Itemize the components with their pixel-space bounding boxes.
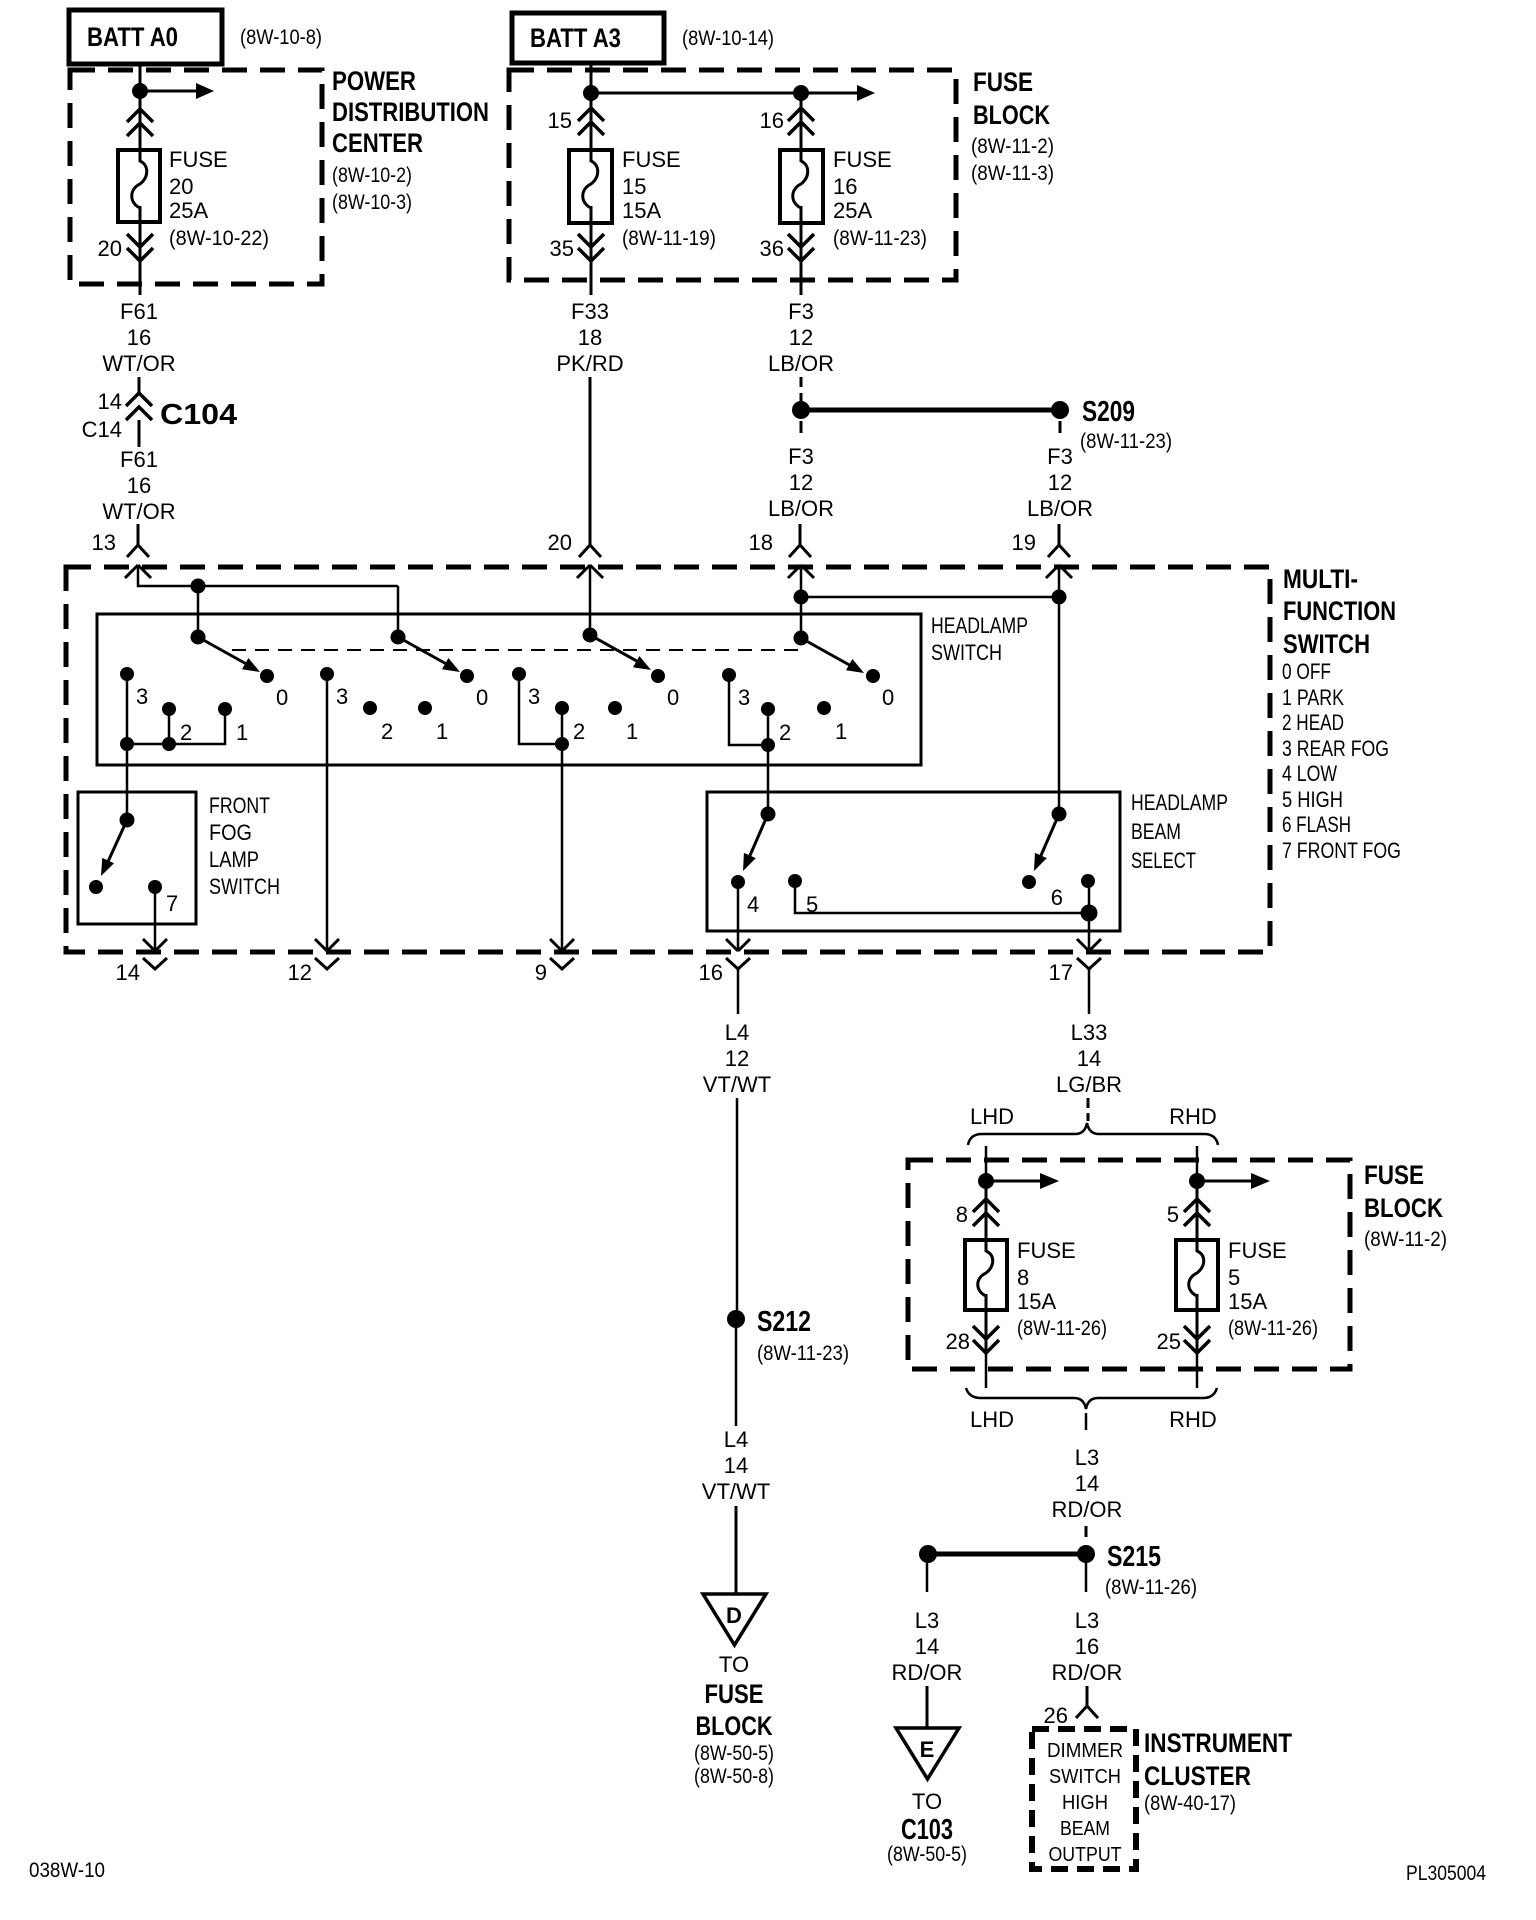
off-page connector D [703,1594,766,1645]
svg-text:HEADLAMP: HEADLAMP [931,613,1028,638]
contact 2 section 1 [162,702,176,716]
contact 1 section 3 [608,701,622,715]
svg-text:12: 12 [1048,470,1072,495]
splice S215 dot [1077,1545,1095,1563]
svg-text:4 LOW: 4 LOW [1282,761,1337,786]
svg-text:0 OFF: 0 OFF [1282,659,1331,684]
wire section3 rail [519,674,562,744]
svg-text:4: 4 [747,892,759,917]
svg-text:F33: F33 [571,299,609,324]
wire contact 4 to pin 16 [737,882,740,951]
contact 2 section 3 [555,701,569,715]
svg-text:PL305004: PL305004 [1406,1862,1486,1885]
wire label F61 16 WT/OR (lower) [102,447,175,524]
pin 9 exit connector [550,939,574,969]
svg-text:35: 35 [550,236,574,261]
terminal chevrons fuse 5 bottom [1184,1326,1210,1353]
wire dashed stub L33 [1087,1098,1090,1121]
label FUSE 8 15A (8W-11-26) [1017,1238,1107,1340]
wire s1 to fog switch [126,744,129,820]
fuse FUSE 20 25A [118,150,160,222]
contact 0 section 3 [651,669,665,683]
svg-text:6: 6 [1051,885,1063,910]
wire F33 long run [589,377,592,524]
contact 5 [788,874,802,888]
svg-text:038W-10: 038W-10 [29,1859,105,1882]
svg-text:BLOCK: BLOCK [1364,1193,1443,1223]
fog contact 7 [148,880,162,894]
wire label F61 16 WT/OR (upper) [102,299,175,376]
svg-text:0: 0 [667,685,679,710]
svg-text:(8W-10-22): (8W-10-22) [169,227,269,250]
svg-text:14: 14 [1077,1046,1101,1071]
svg-text:14: 14 [98,389,122,414]
pin 17 exit connector [1077,939,1101,969]
switch arm section 1 [198,637,263,678]
svg-text:2: 2 [573,719,585,744]
wire section1 rail [127,674,225,744]
svg-text:FUSE: FUSE [833,147,892,172]
svg-text:DIMMER: DIMMER [1047,1740,1123,1762]
wire feed to pivot s1 [197,586,200,637]
svg-text:(8W-11-26): (8W-11-26) [1105,1576,1197,1599]
svg-text:LHD: LHD [970,1104,1014,1129]
svg-text:LG/BR: LG/BR [1056,1072,1122,1097]
wire junction to fuse 20 terminal [139,91,142,162]
contact 3 section 4 [722,668,736,682]
junction dot A3 feed right [793,85,809,101]
pin 19 female connector [1048,524,1070,557]
fuse FUSE 15 15A [569,150,612,223]
wire label F3 12 LB/OR (upper) [768,299,834,376]
svg-text:0: 0 [882,685,894,710]
svg-text:5 HIGH: 5 HIGH [1282,787,1343,812]
svg-text:2: 2 [779,720,791,745]
label HEADLAMP SWITCH [931,613,1028,665]
svg-text:(8W-10-2): (8W-10-2) [332,164,412,187]
pin 20 male connector [577,565,603,578]
box MULTI-FUNCTION SWITCH (dashed) [66,567,1270,952]
wire to C104 [138,377,141,394]
svg-text:16: 16 [760,108,784,133]
svg-text:OUTPUT: OUTPUT [1049,1844,1122,1866]
wire fuse 20 bottom [139,206,142,262]
connector BATT A3 box [512,13,664,63]
switch section 4 pivot [794,631,809,646]
svg-text:FUSE: FUSE [1364,1160,1424,1190]
svg-text:1 PARK: 1 PARK [1282,685,1344,710]
junction dot A3 feed left [583,85,599,101]
contact 1 section 4 [817,701,831,715]
svg-text:PK/RD: PK/RD [556,351,623,376]
terminal chevrons fuse 20 bottom [127,234,153,261]
svg-text:12: 12 [789,325,813,350]
arrow other circuits (fuse block) [857,85,875,101]
fuse FUSE 16 25A [780,150,823,223]
pin 13 male connector [125,565,151,578]
svg-text:(8W-40-17): (8W-40-17) [1144,1792,1236,1815]
wire feed to pivot s2 [397,586,400,637]
svg-text:16: 16 [127,473,151,498]
connector BATT A0 box [69,10,222,64]
svg-text:F3: F3 [1047,444,1073,469]
svg-text:18: 18 [578,325,602,350]
pin 18 male connector [788,565,814,578]
arrow other circuits (PDC) [140,83,214,99]
svg-text:S215: S215 [1107,1541,1161,1573]
svg-text:20: 20 [548,530,572,555]
svg-text:LAMP: LAMP [209,847,259,872]
svg-text:WT/OR: WT/OR [102,499,175,524]
junction dot feed s1 [191,579,206,594]
wire fuse 16 bottom [800,206,803,262]
wire label L33 14 LG/BR [1056,1020,1122,1097]
svg-text:0: 0 [476,685,488,710]
terminal chevrons fuse 20 top [127,109,153,136]
label FUSE 20 25A (8W-10-22) [169,147,269,250]
svg-text:BEAM: BEAM [1060,1818,1110,1840]
svg-text:SWITCH: SWITCH [1049,1766,1121,1788]
switch arm section 4 [801,638,867,679]
svg-text:17: 17 [1049,960,1073,985]
svg-text:(8W-11-23): (8W-11-23) [833,227,927,250]
wire dashed stub below left dot [800,421,803,433]
beam select right arm [1028,814,1059,874]
svg-text:28: 28 [946,1329,970,1354]
svg-text:FUSE: FUSE [169,147,228,172]
off-page connector E [896,1728,959,1779]
svg-text:3: 3 [528,684,540,709]
svg-text:S209: S209 [1082,396,1135,428]
svg-text:POWER: POWER [332,66,416,96]
wire fuse 8 exit [985,1353,988,1388]
wire fuse block exit left [590,261,593,295]
svg-text:2: 2 [180,720,192,745]
svg-text:SWITCH: SWITCH [931,640,1002,665]
switch section 3 pivot [583,628,598,643]
svg-text:7 FRONT FOG: 7 FRONT FOG [1282,838,1401,863]
svg-text:VT/WT: VT/WT [703,1072,771,1097]
wire pin 13 feed [138,565,398,586]
svg-text:5: 5 [1228,1265,1240,1290]
svg-text:BATT A0: BATT A0 [87,22,178,52]
svg-text:BLOCK: BLOCK [973,100,1050,130]
svg-text:26: 26 [1044,1703,1068,1728]
wire pin 17 down [1088,969,1091,1014]
wire fuse block exit right [800,261,803,295]
svg-text:HEADLAMP: HEADLAMP [1131,790,1228,815]
svg-text:3: 3 [136,684,148,709]
svg-text:L3: L3 [1075,1445,1099,1470]
svg-text:TO: TO [912,1789,942,1814]
svg-text:L4: L4 [724,1427,748,1452]
wire s2 contact3 to pin 12 [326,674,329,951]
pin 18 female connector [789,524,811,557]
terminal chevrons fuse 5 top [1184,1199,1210,1226]
svg-text:0: 0 [276,685,288,710]
wire fuse 15 bottom [590,206,593,262]
contact 2 section 4 [761,702,775,716]
svg-text:1: 1 [236,720,248,745]
wire to E triangle [926,1686,929,1728]
junction dot rail s4 [761,738,775,752]
wire dashed stub above S209 [800,377,803,402]
svg-text:(8W-10-8): (8W-10-8) [240,26,322,49]
arrow other circuits fuse 8 [986,1173,1059,1189]
svg-text:SWITCH: SWITCH [1283,629,1370,659]
contact 0 section 4 [866,669,880,683]
terminal chevrons fuse 16 top [788,108,814,135]
svg-text:16: 16 [1075,1634,1099,1659]
wire label F33 18 PK/RD [556,299,623,376]
svg-text:DISTRIBUTION: DISTRIBUTION [332,97,489,127]
contact 2 section 2 [363,701,377,715]
svg-text:FUNCTION: FUNCTION [1283,596,1396,626]
contact 0 section 1 [260,669,274,683]
svg-text:FUSE: FUSE [1228,1238,1287,1263]
svg-text:14: 14 [1075,1471,1099,1496]
svg-text:C14: C14 [82,417,122,442]
label TO FUSE BLOCK [694,1652,774,1788]
svg-text:INSTRUMENT: INSTRUMENT [1144,1728,1292,1758]
wire pin 16 down [737,969,740,1014]
svg-text:8: 8 [956,1202,968,1227]
svg-text:FOG: FOG [209,820,252,845]
wire stub left branch [926,1563,929,1592]
junction dot 5-6 link [1081,905,1098,922]
svg-text:15: 15 [548,108,572,133]
svg-text:8: 8 [1017,1265,1029,1290]
label dimmer switch high beam output [1047,1740,1123,1866]
svg-text:16: 16 [127,325,151,350]
wire dashed stub below S209 [1059,421,1062,433]
connector C104 chevrons [126,393,152,420]
mechanical coupling line (dashed) [232,649,800,651]
svg-text:RD/OR: RD/OR [1052,1660,1123,1685]
wire to fuse 15 [590,93,593,162]
wire into fuse 5 [1196,1181,1199,1252]
svg-text:(8W-11-26): (8W-11-26) [1228,1317,1318,1340]
svg-text:CENTER: CENTER [332,128,423,158]
svg-text:14: 14 [116,960,140,985]
wire fuse 5 exit [1196,1353,1199,1388]
wire pin 19 feed to beam select [1058,565,1061,814]
svg-text:1: 1 [626,719,638,744]
svg-text:12: 12 [288,960,312,985]
box FUSE BLOCK top (dashed) [509,70,956,280]
svg-text:CLUSTER: CLUSTER [1144,1761,1251,1791]
wire to fuse 16 [800,93,803,162]
label FUSE BLOCK (8W-11-2)(8W-11-3) [971,67,1054,185]
contact 3 section 2 [320,667,334,681]
svg-text:14: 14 [724,1453,748,1478]
svg-text:BLOCK: BLOCK [696,1711,773,1741]
svg-text:BEAM: BEAM [1131,819,1181,844]
svg-text:F3: F3 [788,299,814,324]
pin 14 exit connector [143,939,167,969]
svg-text:16: 16 [699,960,723,985]
splice S209 dot [1051,401,1069,419]
svg-text:L33: L33 [1071,1020,1108,1045]
junction dot rail s1 b [162,737,176,751]
svg-text:LHD: LHD [970,1407,1014,1432]
svg-text:VT/WT: VT/WT [702,1479,770,1504]
svg-text:3: 3 [336,684,348,709]
junction dot fuse 5 feed [1189,1173,1205,1189]
svg-text:(8W-11-3): (8W-11-3) [971,162,1054,185]
box FRONT FOG LAMP SWITCH [78,792,196,924]
splice bus line S215 [928,1552,1086,1557]
svg-text:LB/OR: LB/OR [768,496,834,521]
fuse FUSE 8 15A [965,1240,1007,1310]
arrow other circuits fuse 5 [1197,1173,1270,1189]
wire branch RHD down [1196,1146,1199,1181]
wire to D triangle [735,1506,738,1594]
svg-text:1: 1 [835,719,847,744]
label TO C103 [887,1789,967,1866]
svg-text:FUSE: FUSE [1017,1238,1076,1263]
wire branch LHD down [985,1146,988,1181]
svg-text:25: 25 [1157,1329,1181,1354]
label HEADLAMP BEAM SELECT [1131,790,1228,873]
terminal chevrons fuse 15 top [578,108,604,135]
label POWER DISTRIBUTION CENTER [332,66,489,214]
fog contact left [89,880,103,894]
wire label L3 14 RD/OR (to E) [892,1608,963,1685]
wire bus to fuse 16 [591,92,858,95]
contact 0 section 2 [460,669,474,683]
svg-text:25A: 25A [169,198,208,223]
wire s3 to pin 9 [561,744,564,951]
box POWER DISTRIBUTION CENTER (dashed) [70,70,322,284]
svg-text:L4: L4 [725,1020,749,1045]
wire contact 5 to contact 6 [795,881,1089,913]
label INSTRUMENT CLUSTER [1144,1728,1292,1815]
pin 13 female connector [127,524,149,557]
beam select right pivot [1052,807,1067,822]
terminal chevrons fuse 16 bottom [788,234,814,261]
beam select left pivot [761,807,776,822]
svg-text:WT/OR: WT/OR [102,351,175,376]
terminal chevrons fuse 8 top [973,1199,999,1226]
svg-text:(8W-50-8): (8W-50-8) [694,1765,774,1788]
box FUSE BLOCK lower (dashed) [908,1160,1350,1369]
svg-text:BATT A3: BATT A3 [530,23,621,53]
wire label L3 16 RD/OR (to cluster) [1052,1608,1123,1685]
label FUSE 15 15A (8W-11-19) [622,147,716,250]
svg-text:9: 9 [535,960,547,985]
svg-text:LB/OR: LB/OR [1027,496,1093,521]
svg-text:2: 2 [381,719,393,744]
svg-text:F61: F61 [120,447,158,472]
pin 26 female connector [1076,1686,1098,1718]
label MULTI-FUNCTION SWITCH [1283,564,1396,659]
label FRONT FOG LAMP SWITCH [209,793,280,899]
fog switch arm [95,820,127,879]
contact 3 section 3 [512,667,526,681]
switch section 2 pivot [391,630,406,645]
svg-text:13: 13 [92,530,116,555]
splice bus line S209 [801,408,1060,413]
svg-text:15: 15 [622,174,646,199]
beam select left arm [737,814,768,874]
wire section4 rail [729,675,768,745]
wire BATT A0 to junction [139,64,142,93]
svg-text:12: 12 [789,470,813,495]
svg-text:19: 19 [1012,530,1036,555]
svg-text:(8W-11-2): (8W-11-2) [971,135,1054,158]
wire stub right branch [1085,1563,1088,1592]
contact 6 [1081,874,1095,888]
splice S212 dot [727,1310,745,1328]
svg-text:F61: F61 [120,299,158,324]
box HEADLAMP SWITCH [97,614,921,765]
wire label F3 12 LB/OR (pin 18) [768,444,834,521]
wire link to pin 17 [1088,913,1091,951]
legend switch positions [1282,659,1401,863]
svg-text:7: 7 [166,891,178,916]
svg-text:LB/OR: LB/OR [768,351,834,376]
svg-text:(8W-10-14): (8W-10-14) [682,27,774,50]
svg-text:RHD: RHD [1169,1104,1217,1129]
svg-text:L3: L3 [915,1608,939,1633]
wire PDC exit down [139,261,142,295]
wire L4 long run [736,1098,739,1310]
svg-text:25A: 25A [833,198,872,223]
pin 19 male connector [1046,565,1072,578]
box HEADLAMP BEAM SELECT [707,792,1120,931]
svg-text:FRONT: FRONT [209,793,270,818]
svg-text:FUSE: FUSE [705,1679,764,1709]
svg-text:18: 18 [749,530,773,555]
svg-text:(8W-50-5): (8W-50-5) [694,1742,774,1765]
contact 1 section 1 [218,702,232,716]
switch arm section 2 [398,637,463,678]
svg-text:L3: L3 [1075,1608,1099,1633]
contact 4 [731,875,745,889]
svg-text:S212: S212 [757,1306,811,1338]
terminal chevrons fuse 8 bottom [973,1326,999,1353]
wire label L3 14 RD/OR [1052,1445,1123,1522]
label FUSE 5 15A (8W-11-26) [1228,1238,1318,1340]
svg-text:(8W-11-26): (8W-11-26) [1017,1317,1107,1340]
wire label L4 12 VT/WT [703,1020,771,1097]
svg-text:C103: C103 [901,1814,953,1846]
svg-text:(8W-50-5): (8W-50-5) [887,1843,967,1866]
pin 12 exit connector [315,939,339,969]
wire s4 to beam select [767,745,770,814]
junction dot fuse 8 feed [978,1173,994,1189]
svg-text:3 REAR FOG: 3 REAR FOG [1282,736,1389,761]
svg-text:E: E [920,1737,935,1762]
svg-text:20: 20 [98,236,122,261]
svg-text:TO: TO [719,1652,749,1677]
svg-text:SELECT: SELECT [1131,848,1196,873]
svg-text:15A: 15A [1228,1289,1267,1314]
wire fuse 5 bottom [1196,1294,1199,1353]
wire label F3 12 LB/OR (pin 19) [1027,444,1093,521]
wire into fuse 8 [985,1181,988,1252]
svg-text:RD/OR: RD/OR [892,1660,963,1685]
svg-text:15A: 15A [1017,1289,1056,1314]
wire bus 18 to 19 [801,596,1059,599]
brace join bottom [966,1388,1217,1409]
label FUSE 16 25A (8W-11-23) [833,147,927,250]
svg-text:RD/OR: RD/OR [1052,1497,1123,1522]
svg-text:6 FLASH: 6 FLASH [1282,812,1351,837]
svg-text:(8W-11-23): (8W-11-23) [1080,430,1172,453]
wire pin 18 feed [800,565,803,638]
